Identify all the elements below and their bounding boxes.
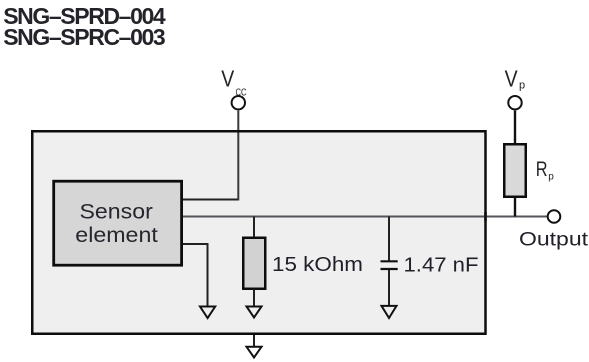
svg-text:p: p (519, 80, 525, 92)
output terminal circle (548, 210, 561, 223)
wire Vp to resistor Rp (514, 111, 516, 145)
ground (capacitor C1) (382, 306, 397, 318)
wire capacitor C1 to ground (388, 270, 390, 306)
resistor Rp (504, 144, 526, 197)
svg-text:R: R (536, 158, 548, 181)
capacitor C1 top plate (381, 260, 398, 262)
wire main line to capacitor C1 (388, 217, 390, 261)
wire package substrate to ground (253, 335, 255, 347)
sensor element block (54, 181, 182, 265)
svg-text:element: element (75, 224, 158, 247)
IC package outline (32, 131, 485, 334)
wire sensor to Vcc branch (183, 199, 238, 201)
Vp terminal circle (508, 96, 521, 109)
svg-text:V: V (505, 66, 519, 92)
capacitor C1 bottom plate (381, 268, 398, 270)
svg-text:V: V (221, 66, 235, 92)
wire resistor Rp to output line (514, 197, 516, 217)
svg-text:15 kOhm: 15 kOhm (272, 254, 363, 276)
svg-text:p: p (548, 171, 554, 182)
ground (sensor element) (200, 307, 215, 319)
IC outline border patch at output wire crossing (484, 212, 487, 221)
IC outline border patch at Vcc wire crossing (234, 130, 243, 133)
wire main signal line (sensor to output) (183, 216, 548, 218)
svg-text:Sensor: Sensor (80, 200, 153, 223)
wire sensor ground branch (183, 244, 208, 307)
ground (resistor R1) (247, 307, 262, 318)
wire main line to resistor R1 (253, 217, 255, 238)
wire resistor R1 to ground (253, 290, 255, 307)
svg-text:SNG–SPRC–003: SNG–SPRC–003 (3, 24, 166, 50)
ground (package) (247, 347, 262, 358)
svg-text:Output: Output (519, 230, 589, 251)
svg-text:1.47 nF: 1.47 nF (404, 255, 479, 277)
resistor R1 15 kOhm (243, 238, 265, 289)
wire Vcc terminal down to branch (237, 111, 239, 201)
Vcc terminal circle (232, 96, 245, 109)
